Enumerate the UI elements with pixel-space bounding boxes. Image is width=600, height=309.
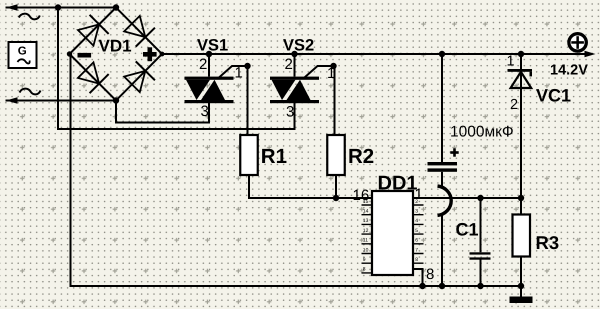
svg-text:11: 11 xyxy=(363,238,368,244)
svg-text:3: 3 xyxy=(415,209,418,215)
svg-text:R1: R1 xyxy=(261,145,287,168)
svg-text:16: 16 xyxy=(353,187,370,204)
svg-text:C1: C1 xyxy=(456,220,479,240)
svg-text:2: 2 xyxy=(285,56,293,73)
svg-text:4: 4 xyxy=(415,218,418,224)
svg-text:3: 3 xyxy=(286,104,294,121)
svg-text:R2: R2 xyxy=(348,145,374,168)
svg-text:1: 1 xyxy=(507,54,515,70)
svg-text:DD1: DD1 xyxy=(378,173,418,195)
svg-text:1000мкФ: 1000мкФ xyxy=(450,124,514,141)
svg-text:1: 1 xyxy=(235,65,243,82)
svg-text:7: 7 xyxy=(415,247,418,253)
svg-text:3: 3 xyxy=(201,103,209,120)
svg-text:2: 2 xyxy=(510,97,518,113)
svg-text:VS2: VS2 xyxy=(283,37,314,55)
svg-text:8: 8 xyxy=(415,257,418,263)
svg-text:1: 1 xyxy=(415,186,423,203)
svg-text:13: 13 xyxy=(363,218,369,224)
svg-text:VS1: VS1 xyxy=(197,37,228,55)
svg-text:2: 2 xyxy=(199,56,207,73)
svg-text:14.2V: 14.2V xyxy=(550,63,588,79)
svg-text:10: 10 xyxy=(363,247,369,253)
svg-text:VC1: VC1 xyxy=(536,86,571,106)
svg-text:G: G xyxy=(18,46,27,58)
svg-text:12: 12 xyxy=(363,228,369,234)
svg-text:14: 14 xyxy=(363,209,369,215)
svg-text:VD1: VD1 xyxy=(99,37,132,56)
svg-text:5: 5 xyxy=(415,228,418,234)
svg-text:R3: R3 xyxy=(536,232,560,253)
svg-text:9: 9 xyxy=(363,257,366,263)
svg-text:6: 6 xyxy=(415,238,418,244)
svg-text:8: 8 xyxy=(426,266,434,283)
svg-text:8: 8 xyxy=(363,267,366,273)
